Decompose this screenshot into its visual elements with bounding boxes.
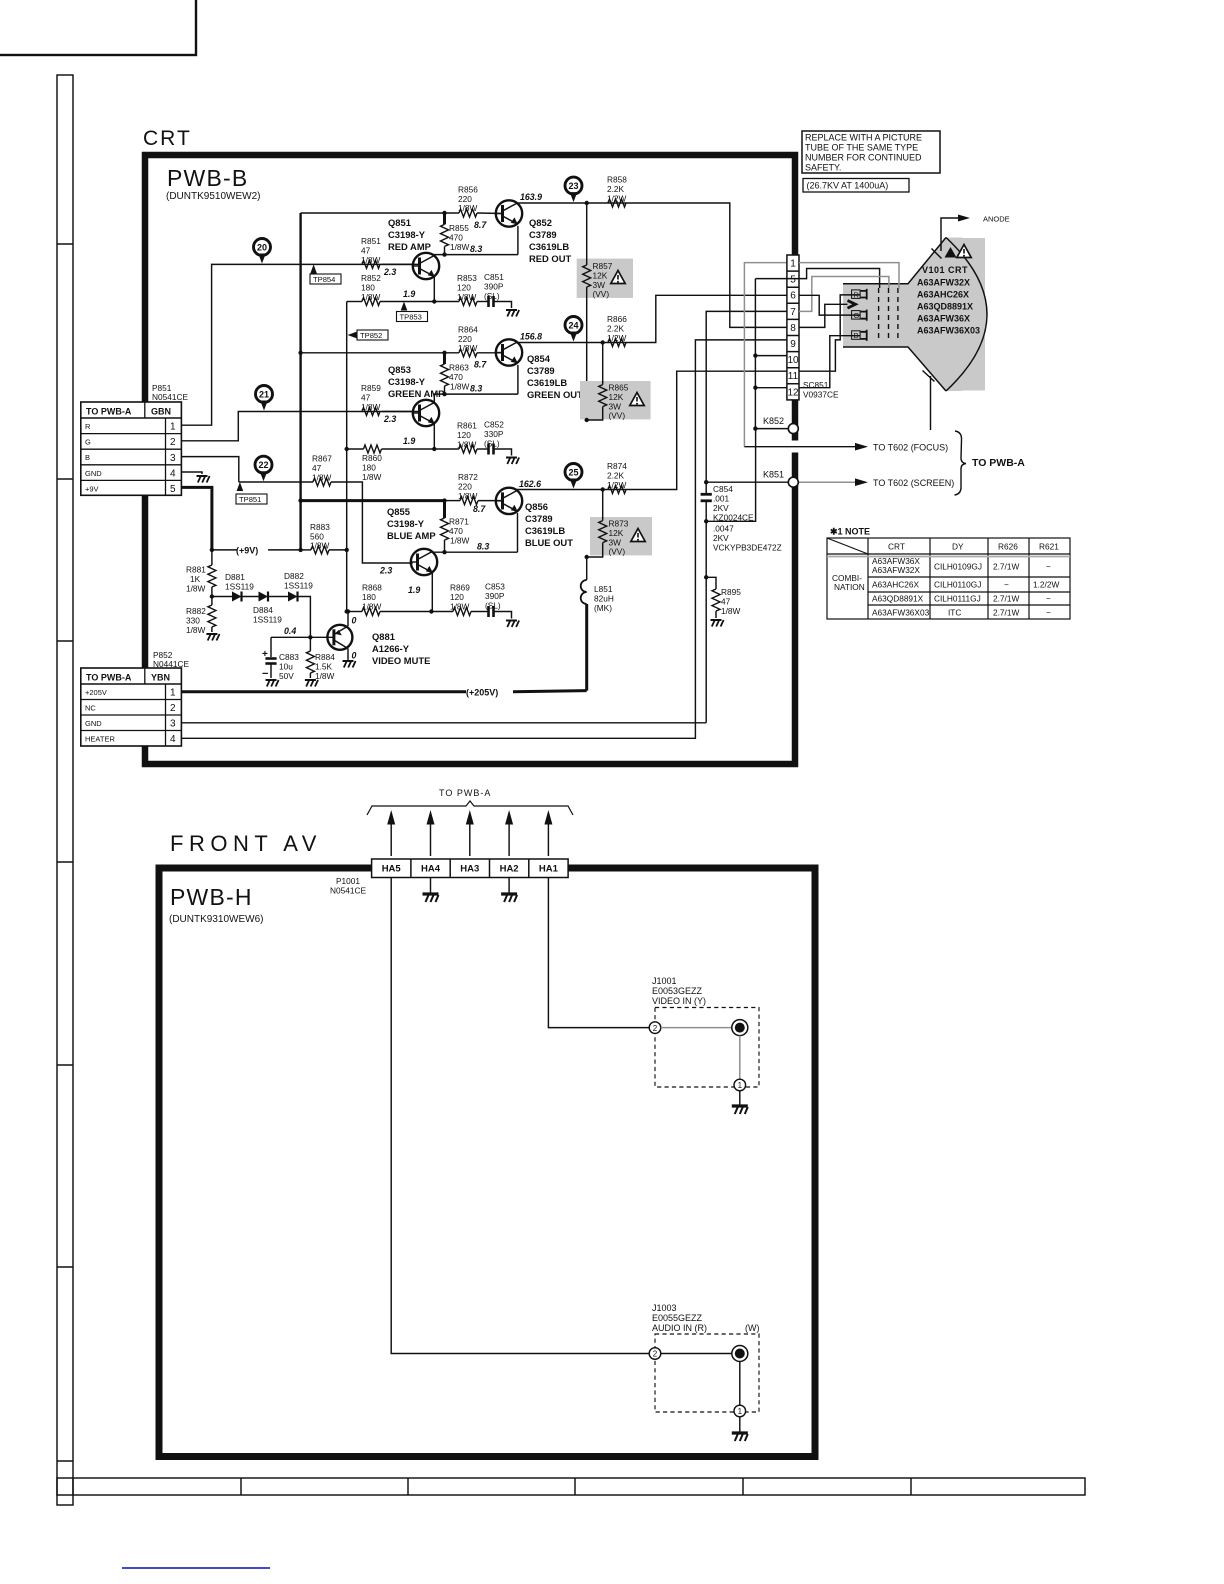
svg-text:1/8W: 1/8W [362,472,382,482]
test point TP853 [397,302,428,322]
Q851 collector leg to 254.6 wire [433,254,435,257]
svg-text:1/2W: 1/2W [607,194,627,204]
svg-text:A63QD8891X: A63QD8891X [917,302,973,312]
svg-text:21: 21 [259,390,269,400]
wire green emitter [382,448,460,450]
wire: P851 pin1 R to red base [181,264,412,425]
resistor R861 120 [459,445,477,453]
Q881 top leg to blue emitter rail [347,612,349,627]
node: +9V / R881 junction [210,548,214,552]
svg-text:FRONT AV: FRONT AV [170,831,322,856]
svg-text:R865: R865 [609,383,629,393]
cathode bracket B [852,330,867,341]
capacitor C883 10u electrolytic [270,637,272,657]
svg-text:1/2W: 1/2W [607,480,627,490]
svg-text:R857: R857 [593,261,613,271]
svg-text:1/8W: 1/8W [361,292,381,302]
svg-text:R867: R867 [312,454,332,464]
deflection tick bottom [923,371,935,431]
svg-text:8.3: 8.3 [470,384,482,394]
Q851 emitter leg [433,277,435,302]
connector P1001 HA boxes [372,859,568,878]
svg-text:1/8W: 1/8W [310,541,330,551]
svg-text:(MK): (MK) [594,603,612,613]
svg-text:KZ0024CE: KZ0024CE [713,513,754,523]
svg-text:(SL): (SL) [484,439,500,449]
svg-text:(DUNTK9310WEW6): (DUNTK9310WEW6) [169,914,263,925]
svg-text:E0055GEZZ: E0055GEZZ [652,1313,703,1323]
svg-text:1/8W: 1/8W [361,255,381,265]
svg-text:R856: R856 [458,185,478,195]
svg-text:47: 47 [312,463,322,473]
svg-text:8.3: 8.3 [477,542,489,552]
svg-text:1/8W: 1/8W [315,671,335,681]
svg-text:AUDIO IN (R): AUDIO IN (R) [652,1323,707,1333]
svg-text:390P: 390P [485,591,505,601]
brace TO PWB-A [955,431,967,495]
wire: focus line from pin1 (gray) [744,263,787,447]
svg-text:.0047: .0047 [713,524,734,534]
wire: Q881 base node [271,636,333,638]
svg-text:5: 5 [790,275,796,286]
wire: P851 pin5 +9V bold feed [181,487,212,550]
note box: 26.7KV [803,179,909,193]
svg-text:Q855: Q855 [387,506,410,517]
wire: HA1 to J1001 [548,878,649,1028]
svg-text:2.3: 2.3 [383,414,396,424]
svg-text:R895: R895 [721,587,741,597]
svg-text:4: 4 [170,734,176,745]
resistor R857 12K 3W (VV) with gray box [577,259,633,298]
svg-text:C3198-Y: C3198-Y [388,376,426,387]
svg-text:HA3: HA3 [460,864,479,875]
svg-text:1/8W: 1/8W [450,536,470,546]
wire: P852 pin4 HEATER riser to pin9 [181,340,787,738]
svg-text:Q854: Q854 [527,353,551,364]
Q853 collector leg [433,394,435,402]
resistor R873 12K 3W (VV) with gray box [590,517,652,555]
svg-text:NUMBER FOR CONTINUED: NUMBER FOR CONTINUED [805,153,922,163]
svg-text:82uH: 82uH [594,594,614,604]
capacitor C852 330P [477,448,488,450]
svg-text:G: G [85,438,91,447]
diode D881 1SS119 [212,596,232,598]
svg-text:(26.7KV AT 1400uA): (26.7KV AT 1400uA) [807,181,889,191]
svg-text:ANODE: ANODE [983,215,1010,224]
svg-text:2: 2 [170,703,176,714]
wire: .0047 link to K852 net [706,429,755,522]
svg-text:Q852: Q852 [529,217,552,228]
svg-text:PWB-H: PWB-H [170,884,253,910]
svg-text:180: 180 [362,592,376,602]
resistor R860 180 [347,448,364,450]
svg-text:CILH0111GJ: CILH0111GJ [934,594,981,604]
svg-text:1/8W: 1/8W [361,402,381,412]
cathode bracket G [852,310,867,321]
svg-text:1.9: 1.9 [403,436,415,446]
svg-text:TP853: TP853 [400,313,422,322]
inductor L851 82uH [586,557,588,580]
svg-text:47: 47 [721,597,731,607]
PWB-B board border [145,155,795,764]
svg-text:D882: D882 [284,571,304,581]
svg-text:1: 1 [738,1407,743,1416]
Q854 emitter leg [517,365,519,394]
svg-text:CRT: CRT [888,542,905,552]
svg-text:+9V: +9V [85,484,99,493]
svg-text:CRT: CRT [143,127,192,150]
svg-text:7: 7 [790,307,796,318]
svg-text:GND: GND [85,719,102,728]
svg-text:1: 1 [170,688,176,699]
svg-text:163.9: 163.9 [520,192,542,202]
svg-text:(VV): (VV) [609,547,626,557]
svg-text:C3619LB: C3619LB [529,241,569,252]
svg-text:VIDEO IN (Y): VIDEO IN (Y) [652,996,706,1006]
svg-text:A63AHC26X: A63AHC26X [917,290,969,300]
svg-text:4: 4 [170,468,176,479]
svg-text:1/8W: 1/8W [458,491,478,501]
connector P851 table TO PWB-A / GBN [81,402,182,495]
svg-text:REPLACE WITH A PICTURE: REPLACE WITH A PICTURE [805,133,922,143]
svg-text:1/8W: 1/8W [312,473,332,483]
wire: P851 pin3 B toward blue channel [181,457,238,482]
svg-text:TO PWB-A: TO PWB-A [972,457,1025,469]
svg-text:Q851: Q851 [388,217,411,228]
connector arrows HA5..HA1 [391,824,548,856]
svg-text:2: 2 [653,1350,658,1359]
svg-text:A63AFW32X: A63AFW32X [872,565,920,575]
svg-text:2: 2 [170,437,176,448]
svg-text:R871: R871 [449,517,469,527]
svg-text:470: 470 [449,233,463,243]
svg-text:23: 23 [568,181,578,191]
emitter rail vertical x=346.7 [346,302,348,612]
svg-text:CILH0110GJ: CILH0110GJ [934,580,981,590]
svg-text:9: 9 [790,339,796,350]
svg-text:CILH0109GJ: CILH0109GJ [934,562,982,572]
resistor R868 180 [347,611,362,613]
resistor R881 1K vertical [211,550,213,565]
svg-text:A1266-Y: A1266-Y [372,643,410,654]
svg-text:1/8W: 1/8W [186,584,206,594]
wire: red inter-stage (8.3) [433,254,518,256]
resistor R859 47 [362,408,380,416]
svg-text:J1001: J1001 [652,976,677,986]
heater chevron [848,301,856,309]
svg-text:GND: GND [85,469,102,478]
svg-text:162.6: 162.6 [519,479,541,489]
svg-text:R881: R881 [186,565,206,575]
ground (C851) [494,302,512,309]
svg-text:R859: R859 [361,383,381,393]
svg-text:8.7: 8.7 [474,360,487,370]
svg-text:R626: R626 [998,542,1018,552]
svg-text:C3789: C3789 [529,229,557,240]
wire red emitter [380,301,459,303]
svg-text:R866: R866 [607,314,627,324]
svg-text:BLUE OUT: BLUE OUT [525,537,573,548]
svg-text:Q881: Q881 [372,631,395,642]
svg-text:BLUE AMP: BLUE AMP [387,530,436,541]
transistor Q851 RED AMP [413,253,439,279]
svg-text:1: 1 [738,1081,743,1090]
svg-text:PWB-B: PWB-B [167,165,248,191]
svg-text:1: 1 [790,259,796,270]
Q881 bottom leg to ground [347,649,349,661]
svg-text:C3198-Y: C3198-Y [387,518,425,529]
svg-text:VIDEO MUTE: VIDEO MUTE [372,655,430,666]
blue collector rail to pin 11 [517,371,787,489]
Q855 emitter leg [431,573,433,612]
callout 22 [255,456,272,481]
svg-text:1.2/2W: 1.2/2W [1033,580,1059,590]
wire blue emitter [380,611,453,613]
Q855 collector leg [431,551,433,552]
svg-text:3: 3 [170,453,176,464]
svg-text:1/8W: 1/8W [721,606,741,616]
red collector rail to pin 8 [517,203,787,327]
svg-text:K851: K851 [763,470,784,480]
svg-text:HEATER: HEATER [85,735,115,744]
svg-text:A63AFW32X: A63AFW32X [917,278,970,288]
CRT body (gray) [843,238,962,392]
svg-text:A63AFW36X03: A63AFW36X03 [917,326,980,336]
svg-text:.001: .001 [713,494,730,504]
svg-text:(VV): (VV) [593,289,610,299]
resistor R853 120 [459,298,477,306]
svg-text:1/8W: 1/8W [457,292,477,302]
svg-text:DY: DY [952,542,964,552]
svg-text:390P: 390P [484,282,504,292]
svg-text:1/2W: 1/2W [607,333,627,343]
svg-text:220: 220 [458,482,472,492]
svg-text:0.4: 0.4 [284,626,296,636]
svg-text:TO PWB-A: TO PWB-A [86,407,132,417]
svg-text:1SS119: 1SS119 [225,582,254,592]
resistor R863 470 vertical [443,353,446,364]
svg-text:25: 25 [568,468,578,478]
wire: HA5 to J1003 [391,878,649,1354]
P851 pin4 ground [181,472,202,474]
wire: +9V bold tap to Q856 base [301,499,445,502]
svg-text:0: 0 [352,651,357,661]
svg-text:GBN: GBN [151,407,171,417]
svg-text:TP852: TP852 [360,331,382,340]
wire: pin5 stub [755,278,787,280]
capacitor C854 .001 2KV [701,493,712,496]
svg-text:C883: C883 [279,652,299,662]
svg-text:47: 47 [361,246,371,256]
svg-text:12: 12 [787,387,799,398]
svg-text:B: B [85,453,90,462]
svg-text:1SS119: 1SS119 [253,615,282,625]
diode D884 1SS119 [242,596,259,598]
svg-text:HA2: HA2 [500,864,519,875]
svg-text:SAFETY.: SAFETY. [805,163,841,173]
wire: pin7 / K851 / C854 vertical [706,311,787,722]
resistor R895 47 [706,577,716,589]
svg-text:2.3: 2.3 [379,566,392,576]
svg-text:SC851: SC851 [803,380,829,390]
page frame: left ruler column with ticks [57,75,73,1505]
test point TP851 [236,482,267,504]
svg-text:N0541CE: N0541CE [152,392,188,402]
svg-text:R864: R864 [458,325,478,335]
svg-text:2KV: 2KV [713,503,729,513]
svg-text:1/8W: 1/8W [450,242,470,252]
svg-text:470: 470 [449,526,463,536]
gun mesh: pin12 to B bracket [799,336,861,388]
svg-text:C3619LB: C3619LB [525,525,565,536]
Q853 emitter leg [433,424,435,449]
wire: K851 screen line [706,481,788,483]
capacitor C851 390P [477,301,488,303]
svg-text:470: 470 [449,372,463,382]
svg-text:11: 11 [788,371,799,382]
connector P852 table TO PWB-A / YBN [81,668,182,746]
svg-text:−: − [262,668,268,680]
svg-text:A63AFW36X: A63AFW36X [917,314,970,324]
svg-text:N0541CE: N0541CE [330,886,366,896]
svg-text:47: 47 [361,393,371,403]
capacitor C853 390P [471,611,488,613]
svg-text:+: + [262,649,268,660]
svg-text:TO PWB-A: TO PWB-A [86,673,132,683]
svg-text:Q853: Q853 [388,364,411,375]
svg-text:(W): (W) [745,1323,760,1333]
svg-text:50V: 50V [279,671,294,681]
wire: (+9V) rail horizontal [212,549,305,551]
wire: P851 pin2 G to green base [181,412,412,441]
svg-text:10u: 10u [279,662,293,672]
svg-text:1/8W: 1/8W [458,203,478,213]
svg-text:R860: R860 [362,453,382,463]
svg-text:6: 6 [790,291,796,302]
svg-text:R884: R884 [315,652,335,662]
svg-text:P1001: P1001 [336,876,360,886]
gun mesh: pin8 to heater chevron [799,304,848,327]
svg-text:1/8W: 1/8W [458,343,478,353]
gun mesh: pin11 to R bracket [799,295,861,371]
svg-text:8.3: 8.3 [470,244,482,254]
svg-text:120: 120 [457,283,471,293]
svg-text:1.9: 1.9 [403,289,415,299]
svg-text:2.7/1W: 2.7/1W [993,608,1019,618]
transistor Q855 BLUE AMP [411,549,437,575]
transistor Q852 RED OUT [496,200,522,226]
svg-text:120: 120 [450,592,464,602]
HA2 ground [508,878,510,894]
gap in right border for focus line [789,441,801,453]
ground (C853) [494,612,512,619]
svg-text:(+205V): (+205V) [466,688,498,698]
grid electrodes (dashed) [879,288,898,341]
transistor Q856 BLUE OUT [496,488,522,514]
svg-text:(SL): (SL) [484,291,500,301]
svg-text:RED OUT: RED OUT [529,253,571,264]
svg-text:R: R [85,422,91,431]
svg-text:−: − [1046,562,1051,572]
svg-text:1: 1 [170,422,176,433]
resistor R855 470 vertical [443,213,446,224]
svg-text:GREEN OUT: GREEN OUT [527,389,583,400]
anode lead and arrow [941,218,958,251]
svg-text:TO PWB-A: TO PWB-A [439,788,491,798]
svg-text:1/8W: 1/8W [450,602,470,612]
warning marks on funnel [945,247,957,258]
callout 20 [254,239,271,264]
svg-text:2KV: 2KV [713,533,729,543]
svg-text:R874: R874 [607,461,627,471]
svg-text:TP851: TP851 [239,495,261,504]
svg-text:NC: NC [85,704,96,713]
svg-text:1.9: 1.9 [408,585,420,595]
svg-text:YBN: YBN [151,673,170,683]
svg-text:R872: R872 [458,472,478,482]
wire: R883 to emitter rail [305,549,311,551]
svg-text:180: 180 [361,283,375,293]
wire: +9V tap to Q854 base [301,352,459,354]
svg-text:−: − [1046,608,1051,618]
resistor R852 180 [347,301,362,303]
svg-text:24: 24 [568,321,578,331]
diode D882 1SS119 [268,596,288,598]
svg-text:2.2K: 2.2K [607,324,625,334]
svg-text:R861: R861 [457,421,477,431]
svg-text:RED AMP: RED AMP [388,241,431,252]
transistor Q854 GREEN OUT [496,339,522,365]
decorative blue underline bottom-left [122,1567,270,1569]
transistor Q853 GREEN AMP [413,400,439,426]
svg-text:(VV): (VV) [609,411,626,421]
svg-text:180: 180 [362,463,376,473]
svg-text:R852: R852 [361,273,381,283]
page frame: bottom footer ruler [57,1478,1085,1495]
svg-text:8.7: 8.7 [473,504,486,514]
transistor Q881 VIDEO MUTE (PNP) [327,625,352,650]
svg-text:R858: R858 [607,175,627,185]
test point TP852 [348,330,389,340]
callout 21 [256,386,273,411]
resistor R884 1.5K vertical [309,637,311,651]
svg-text:2.3: 2.3 [383,267,396,277]
svg-text:330: 330 [186,616,200,626]
svg-text:L851: L851 [594,584,613,594]
connector SC851 pin boxes [787,255,799,400]
svg-text:1/8W: 1/8W [186,625,206,635]
svg-text:1/8W: 1/8W [362,602,382,612]
svg-text:8: 8 [790,323,796,334]
node: bus taps [298,351,302,355]
svg-text:NATION: NATION [834,582,865,592]
wire: blue base path with R867 [239,481,313,483]
HA4 ground [430,878,432,894]
svg-text:−: − [1004,580,1009,590]
resistor R882 330 vertical [208,605,216,627]
resistor R874 2.2K [608,486,626,494]
svg-text:+205V: +205V [85,688,107,697]
resistor R851 47 [362,260,380,268]
svg-text:Q856: Q856 [525,501,548,512]
svg-text:D884: D884 [253,605,273,615]
resistor R866 2.2K [608,339,626,347]
gun mesh: pin1 to grid (gray) [799,263,899,289]
wire: +9V tap to Q852 base [301,212,459,214]
svg-text:C851: C851 [484,272,504,282]
svg-text:R863: R863 [449,363,469,373]
svg-text:C853: C853 [485,582,505,592]
